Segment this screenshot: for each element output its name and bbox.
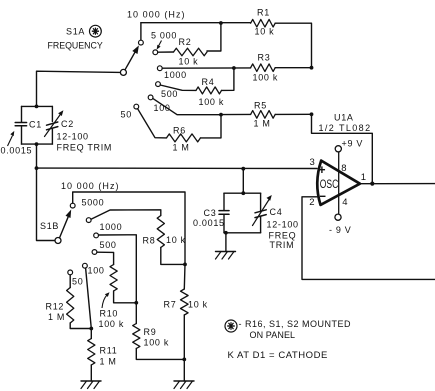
svg-text:500: 500 xyxy=(100,240,117,250)
wire C4 branch lower xyxy=(260,216,262,232)
S1A wiper arm xyxy=(125,52,135,70)
svg-text:C1: C1 xyxy=(29,120,42,130)
resistor R2 xyxy=(174,48,208,56)
wire C3 branch lower xyxy=(223,215,225,233)
svg-text:100 k: 100 k xyxy=(144,338,170,348)
+9V terminal circle xyxy=(335,146,341,152)
svg-text:R1: R1 xyxy=(257,8,270,18)
svg-text:1 M: 1 M xyxy=(100,357,117,367)
svg-text:R11: R11 xyxy=(100,346,118,356)
svg-text:OSC: OSC xyxy=(320,177,339,191)
resistor R8 xyxy=(157,216,164,248)
svg-text:R5: R5 xyxy=(254,101,267,111)
resistor R6 xyxy=(167,134,201,142)
S1B wiper pivot xyxy=(55,238,61,244)
svg-text:FREQUENCY: FREQUENCY xyxy=(48,41,103,51)
wire R4 right up to R3 row xyxy=(222,68,234,90)
wire pin2 feedback xyxy=(302,197,435,280)
node output junction xyxy=(370,182,374,186)
svg-text:R7: R7 xyxy=(164,300,177,310)
ground R7 xyxy=(174,381,194,389)
wire feed down to C3C4 xyxy=(242,169,244,194)
wire 100 to R5 row xyxy=(153,98,221,114)
svg-text:0.0015: 0.0015 xyxy=(193,218,225,228)
op-amp U1A triangle xyxy=(317,161,360,205)
wire R5 right to bus xyxy=(275,113,311,115)
wire R9 bottom to R7 bottom xyxy=(136,349,184,360)
wire R11 to ground xyxy=(90,365,92,381)
svg-text:5000: 5000 xyxy=(82,198,105,208)
svg-text:100: 100 xyxy=(154,103,171,113)
node R9 R7 bottom junction xyxy=(182,358,186,362)
wire C1C2 box top xyxy=(22,105,53,107)
node C1C2 bottom xyxy=(35,142,39,146)
capacitor C1 plates xyxy=(15,122,26,124)
svg-text:TRIM: TRIM xyxy=(270,240,295,250)
wire output to edge xyxy=(360,183,435,185)
wire C1C2 box bottom xyxy=(22,143,53,145)
svg-text:- 9 V: - 9 V xyxy=(329,225,352,235)
svg-text:4: 4 xyxy=(342,197,347,208)
svg-text:1 M: 1 M xyxy=(48,312,65,322)
wire S1B feed xyxy=(37,168,56,240)
svg-text:500: 500 xyxy=(161,89,178,99)
switch contact S1A 10000 xyxy=(139,40,144,45)
svg-text:R10: R10 xyxy=(100,309,119,319)
svg-text:2: 2 xyxy=(309,197,314,208)
svg-text:C2: C2 xyxy=(61,119,74,129)
svg-text:1 M: 1 M xyxy=(173,143,190,153)
node pin3 C3C4 feed xyxy=(241,167,245,171)
wire C1 branch lower xyxy=(21,127,23,145)
wire R6 right up to R5 row xyxy=(201,115,222,138)
wire 1000 to R9 top xyxy=(99,235,137,303)
C2 trimmer arrow xyxy=(45,114,62,137)
wire C2 branch upper xyxy=(51,106,53,121)
svg-text:10 k: 10 k xyxy=(179,57,199,67)
S1B wiper arm xyxy=(60,217,69,238)
svg-text:50: 50 xyxy=(72,277,83,287)
svg-text:1000: 1000 xyxy=(100,222,123,232)
switch contact S1A 5000 xyxy=(153,50,158,55)
S1A wiper pivot xyxy=(120,69,126,75)
switch contact S1B 5000 xyxy=(86,218,91,223)
panel symbol S1A xyxy=(90,25,102,37)
wire 50 to R6 xyxy=(138,109,167,138)
node R12 R11 junction xyxy=(89,327,93,331)
svg-text:100 k: 100 k xyxy=(99,319,125,329)
svg-text:12-100: 12-100 xyxy=(57,132,89,142)
switch contact S1A 100 xyxy=(148,95,153,100)
switch contact S1B 1000 xyxy=(94,233,99,238)
wire junction to R9 xyxy=(135,303,137,324)
wire R2 right end up to R1 row xyxy=(207,23,221,51)
wire bus down from R5 row xyxy=(312,114,373,183)
resistor R7 xyxy=(181,289,189,315)
wire 5000 to R8 top xyxy=(91,210,161,219)
wire C3 branch upper xyxy=(223,193,225,210)
svg-text:1/2 TL082: 1/2 TL082 xyxy=(319,123,372,133)
svg-text:1: 1 xyxy=(361,172,366,183)
svg-text:U1A: U1A xyxy=(334,113,354,123)
wire pin8 pin4 vertical xyxy=(338,152,340,214)
switch contact S1A 50 xyxy=(134,104,139,109)
wire C1C2 bottom to pin3 row xyxy=(36,144,38,168)
capacitor C4 plates xyxy=(255,210,266,213)
wire 1000 to R3 row xyxy=(162,67,250,69)
resistor R12 xyxy=(67,288,74,324)
arrow R10 label xyxy=(102,292,110,308)
svg-text:ON PANEL: ON PANEL xyxy=(250,330,296,340)
svg-text:1 M: 1 M xyxy=(254,119,271,129)
wire S1B 10000 to bus xyxy=(73,192,185,264)
wire 100 to R11 top junction xyxy=(86,268,92,329)
svg-text:100 k: 100 k xyxy=(253,73,279,83)
svg-text:S1B: S1B xyxy=(40,221,59,231)
wire R7 bottom to ground xyxy=(183,315,185,381)
node C3C4 ground xyxy=(224,231,228,235)
node 100/R6 junction xyxy=(219,113,223,117)
wire R5 row xyxy=(221,113,251,115)
S1B wiper arrowhead xyxy=(66,210,72,219)
svg-text:5 000: 5 000 xyxy=(151,31,177,41)
wire 5000 to R2 xyxy=(158,51,174,53)
wire junction to R11 xyxy=(90,329,92,339)
svg-text:R9: R9 xyxy=(144,327,157,337)
svg-text:R6: R6 xyxy=(173,126,186,136)
panel symbol note xyxy=(225,320,237,332)
resistor R3 xyxy=(251,64,276,72)
svg-text:10 000 (Hz): 10 000 (Hz) xyxy=(61,181,120,191)
svg-text:0.0015: 0.0015 xyxy=(1,146,33,156)
node C3C4 top xyxy=(241,191,245,195)
wire bus to R7 xyxy=(183,264,186,289)
svg-text:8: 8 xyxy=(341,163,346,174)
wire C3C4 box top xyxy=(224,192,261,194)
switch contact S1B 50 xyxy=(68,270,73,275)
node C1C2 top xyxy=(35,105,39,109)
node bus R5 xyxy=(310,112,314,116)
resistor R11 xyxy=(88,339,95,366)
svg-text:3: 3 xyxy=(310,157,315,168)
wire C3C4 box bottom xyxy=(224,232,261,234)
wire R3 right to bus xyxy=(275,67,311,69)
arrow 5000 label xyxy=(157,41,162,50)
svg-text:C4: C4 xyxy=(270,207,283,217)
wire R1 right to bus xyxy=(275,23,311,67)
switch contact S1B 500 xyxy=(92,250,97,255)
svg-text:S1A: S1A xyxy=(66,27,85,37)
wire R10 bottom to junction xyxy=(114,291,137,303)
node bus R3 xyxy=(310,66,314,70)
svg-text:R8: R8 xyxy=(143,236,156,246)
ground C3C4 xyxy=(216,252,236,260)
svg-text:+9 V: +9 V xyxy=(342,139,364,149)
svg-text:R4: R4 xyxy=(202,77,215,87)
node R2 joins R1 row xyxy=(219,21,223,25)
svg-text:100 k: 100 k xyxy=(199,97,225,107)
svg-text:K AT D1 = CATHODE: K AT D1 = CATHODE xyxy=(228,350,328,361)
wire S1A wiper to C1 top xyxy=(37,71,121,106)
svg-text:- R16, S1, S2 MOUNTED: - R16, S1, S2 MOUNTED xyxy=(239,319,352,329)
switch contact S1A 1000 xyxy=(157,66,162,71)
wire C3C4 ground stem xyxy=(225,233,227,252)
svg-text:100: 100 xyxy=(88,266,105,276)
wire 50 to R12 xyxy=(69,275,71,288)
svg-text:C3: C3 xyxy=(204,208,217,218)
node R10 R9 junction xyxy=(134,301,138,305)
arrow 0.0015 to C1 xyxy=(8,131,15,146)
switch contact S1B 10000 xyxy=(70,203,75,208)
svg-text:R12: R12 xyxy=(46,302,65,312)
wire R12 bottom to junction xyxy=(70,323,91,329)
node R8 bus junction xyxy=(183,263,187,267)
opamp minus xyxy=(320,195,326,197)
wire 500 to R10 xyxy=(97,252,114,264)
resistor R1 xyxy=(251,19,276,27)
resistor R4 xyxy=(196,87,222,94)
-9V terminal circle xyxy=(335,214,341,220)
C4 trimmer arrow xyxy=(253,199,270,226)
resistor R9 xyxy=(133,324,140,349)
wire C4 branch upper xyxy=(260,193,262,211)
svg-text:R3: R3 xyxy=(258,53,271,63)
svg-text:10 k: 10 k xyxy=(166,235,186,245)
svg-text:1000: 1000 xyxy=(164,70,187,80)
wire 500 to R4 xyxy=(160,85,196,90)
S1A wiper arrowhead xyxy=(132,45,139,54)
svg-text:R2: R2 xyxy=(179,37,192,47)
wire R8 bottom to bus xyxy=(161,248,185,265)
svg-text:+: + xyxy=(318,163,325,177)
svg-text:10 k: 10 k xyxy=(255,27,275,37)
capacitor C3 plates xyxy=(219,210,229,212)
node pin3 row left xyxy=(35,166,39,170)
svg-text:FREQ: FREQ xyxy=(269,231,297,241)
wire C1 branch upper xyxy=(21,106,23,121)
wire C2 branch lower xyxy=(51,129,53,145)
svg-text:10 k: 10 k xyxy=(188,300,208,310)
resistor R10 xyxy=(110,265,117,292)
node 1000/R4 junction xyxy=(232,66,236,70)
svg-text:FREQ TRIM: FREQ TRIM xyxy=(57,143,113,153)
switch contact S1A 500 xyxy=(156,82,161,87)
svg-text:12-100: 12-100 xyxy=(267,220,299,230)
svg-text:10 000 (Hz): 10 000 (Hz) xyxy=(127,10,186,20)
switch contact S1B 100 xyxy=(83,263,88,268)
capacitor C2 plates xyxy=(47,122,58,125)
wire 10000 contact stem xyxy=(140,23,142,41)
svg-text:50: 50 xyxy=(121,110,132,120)
wire pin3 row xyxy=(37,167,318,169)
ground R11 xyxy=(81,381,101,389)
resistor R5 xyxy=(251,111,276,119)
wire top row 10000 to R1 xyxy=(141,22,251,24)
